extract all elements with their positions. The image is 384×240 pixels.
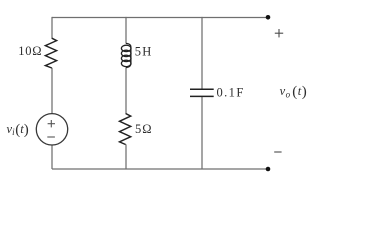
wire left branch upper	[51, 17, 53, 39]
svg-text:0.1F: 0.1F	[217, 86, 245, 100]
wire left branch lower	[51, 145, 53, 169]
wire bottom rail	[52, 168, 268, 170]
wire top rail	[52, 17, 268, 19]
svg-text:vi(t): vi(t)	[7, 122, 29, 138]
capacitor C1 bottom plate	[190, 95, 214, 97]
wire middle branch upper	[125, 17, 127, 44]
wire capacitor branch upper	[201, 17, 203, 89]
svg-text:5Ω: 5Ω	[135, 122, 153, 136]
wire middle branch center	[125, 67, 127, 113]
capacitor C1 top plate	[190, 88, 214, 90]
output minus sign	[274, 151, 281, 153]
voltage source V1 minus sign	[47, 136, 55, 138]
voltage source V1 circle	[36, 114, 67, 145]
wire capacitor branch lower	[201, 97, 203, 169]
wire left branch middle	[51, 68, 53, 114]
svg-text:vo(t): vo(t)	[280, 84, 308, 100]
node B bottom right terminal dot	[266, 167, 271, 172]
svg-text:5H: 5H	[135, 45, 153, 59]
voltage source V1 plus sign	[48, 120, 55, 127]
output plus sign	[275, 29, 283, 37]
svg-text:10Ω: 10Ω	[18, 44, 42, 58]
inductor L1 coil	[121, 43, 131, 67]
wire middle branch lower	[125, 144, 127, 169]
resistor R1 10ohm zigzag	[45, 38, 56, 68]
resistor R2 5ohm zigzag	[120, 114, 131, 145]
node A top right terminal dot	[266, 15, 271, 20]
